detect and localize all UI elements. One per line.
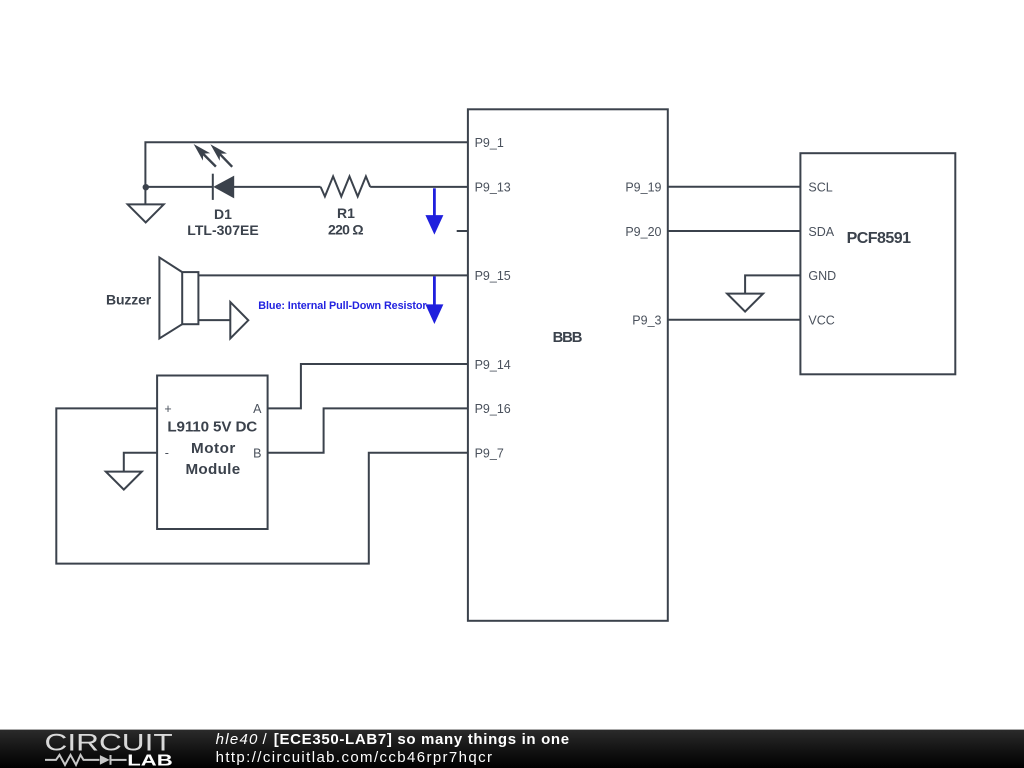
svg-text:+: + [164,402,171,416]
svg-text:LTL-307EE: LTL-307EE [187,222,258,238]
svg-text:220 Ω: 220 Ω [328,222,364,238]
svg-text:P9_16: P9_16 [475,402,511,416]
svg-text:P9_1: P9_1 [475,136,504,150]
svg-text:P9_19: P9_19 [625,180,661,194]
svg-text:hle40: hle40 [216,731,258,748]
svg-text:P9_15: P9_15 [475,269,511,283]
svg-text:[ECE350-LAB7] so many things i: [ECE350-LAB7] so many things in one [274,731,569,748]
svg-text:Module: Module [185,461,240,478]
svg-text:SCL: SCL [808,180,832,194]
svg-text:BBB: BBB [553,330,583,346]
svg-text:P9_7: P9_7 [475,447,504,461]
svg-text:-: - [165,446,169,460]
svg-text:P9_14: P9_14 [475,358,511,372]
svg-text:D1: D1 [214,206,232,222]
svg-text:Motor: Motor [191,440,235,457]
svg-text:R1: R1 [337,205,355,221]
svg-text:Blue: Internal Pull-Down Resis: Blue: Internal Pull-Down Resistor [258,300,427,312]
svg-text:PCF8591: PCF8591 [847,230,911,247]
svg-text:P9_20: P9_20 [625,225,661,239]
svg-text:A: A [253,402,262,416]
svg-text:B: B [253,447,261,461]
svg-text:L9110 5V DC: L9110 5V DC [167,419,257,436]
svg-text:GND: GND [808,269,836,283]
svg-text:Buzzer: Buzzer [106,292,152,308]
svg-text:P9_3: P9_3 [632,314,661,328]
svg-text:VCC: VCC [808,314,834,328]
svg-text:SDA: SDA [808,225,834,239]
svg-text:LAB: LAB [127,752,172,768]
svg-text:http://circuitlab.com/ccb46rpr: http://circuitlab.com/ccb46rpr7hqcr [216,749,492,766]
svg-text:P9_13: P9_13 [475,180,511,194]
